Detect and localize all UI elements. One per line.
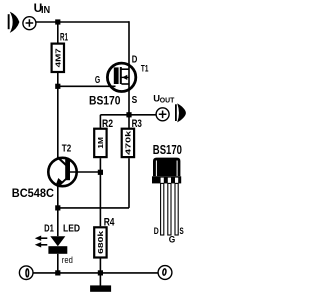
svg-text:R1: R1 — [60, 31, 68, 43]
svg-text:BS170: BS170 — [89, 93, 121, 107]
svg-text:IN: IN — [41, 5, 50, 16]
terminal U_OUT plus circle — [156, 108, 169, 121]
svg-text:1M: 1M — [96, 137, 105, 149]
node junction gate / R1 / T2 collector — [55, 84, 60, 89]
resistor R3 470k — [122, 129, 134, 157]
svg-text:S: S — [132, 95, 138, 106]
component BS170 TO-92 package — [152, 158, 181, 235]
wire R3 top lead — [128, 115, 130, 128]
svg-text:S: S — [180, 226, 184, 237]
node junction LED / bottom rail — [55, 270, 60, 275]
resistor R2 1M — [94, 129, 106, 157]
transistor T1 BS170 MOSFET — [107, 63, 135, 91]
svg-text:D: D — [154, 226, 159, 237]
terminal 0 left — [19, 266, 33, 280]
svg-text:LED: LED — [63, 224, 80, 235]
node junction top rail / R1 — [55, 19, 60, 24]
ground — [90, 273, 111, 292]
svg-text:4M7: 4M7 — [54, 48, 63, 67]
wire top rail — [36, 21, 129, 23]
node junction source / R3 / output — [126, 112, 131, 117]
wire LED bottom lead — [57, 254, 59, 273]
wire R4 bottom lead — [99, 259, 101, 273]
wire T2 base line — [67, 171, 100, 173]
svg-text:G: G — [95, 75, 100, 86]
node junction emitter / LED / R4 line — [55, 205, 60, 210]
label U_OUT — [153, 94, 175, 105]
node U_IN input arrow — [9, 12, 20, 33]
svg-text:D1: D1 — [44, 224, 54, 235]
wire R2 bottom lead to base junction — [99, 158, 101, 226]
wire output line — [100, 114, 155, 116]
svg-text:BS170: BS170 — [153, 143, 182, 157]
wire LED top lead — [57, 208, 59, 236]
wire R1 top lead — [57, 22, 59, 44]
resistor R1 4M7 — [52, 44, 64, 72]
terminal 0 right — [158, 266, 172, 280]
diode D1 LED red — [35, 236, 68, 254]
wire T2 emitter lead — [57, 186, 59, 208]
wire emitter rail to R3 — [58, 207, 129, 209]
node U_OUT output arrow — [176, 103, 186, 122]
wire drain column — [128, 21, 130, 115]
svg-text:680k: 680k — [96, 230, 105, 254]
wire R2 top lead — [99, 115, 101, 128]
node junction T2 base / R2 — [98, 170, 103, 175]
wire R1 bottom lead — [57, 73, 59, 86]
wire gate line — [58, 85, 116, 87]
wire R3 bottom lead — [128, 158, 130, 208]
svg-text:G: G — [169, 234, 176, 245]
svg-text:T1: T1 — [141, 63, 149, 73]
wire T2 collector — [57, 86, 59, 158]
svg-text:T2: T2 — [62, 144, 72, 155]
resistor R4 680k — [94, 227, 106, 257]
svg-text:D: D — [132, 54, 138, 65]
svg-text:red: red — [62, 255, 73, 266]
terminal U_IN plus circle — [23, 17, 36, 30]
svg-text:470k: 470k — [124, 130, 133, 155]
svg-text:OUT: OUT — [160, 98, 175, 105]
node junction R4 / ground / bottom rail — [98, 270, 103, 275]
label U_IN — [34, 1, 51, 16]
transistor T2 BC548C — [48, 157, 76, 186]
wire bottom rail — [33, 272, 158, 274]
svg-text:BC548C: BC548C — [12, 186, 54, 200]
